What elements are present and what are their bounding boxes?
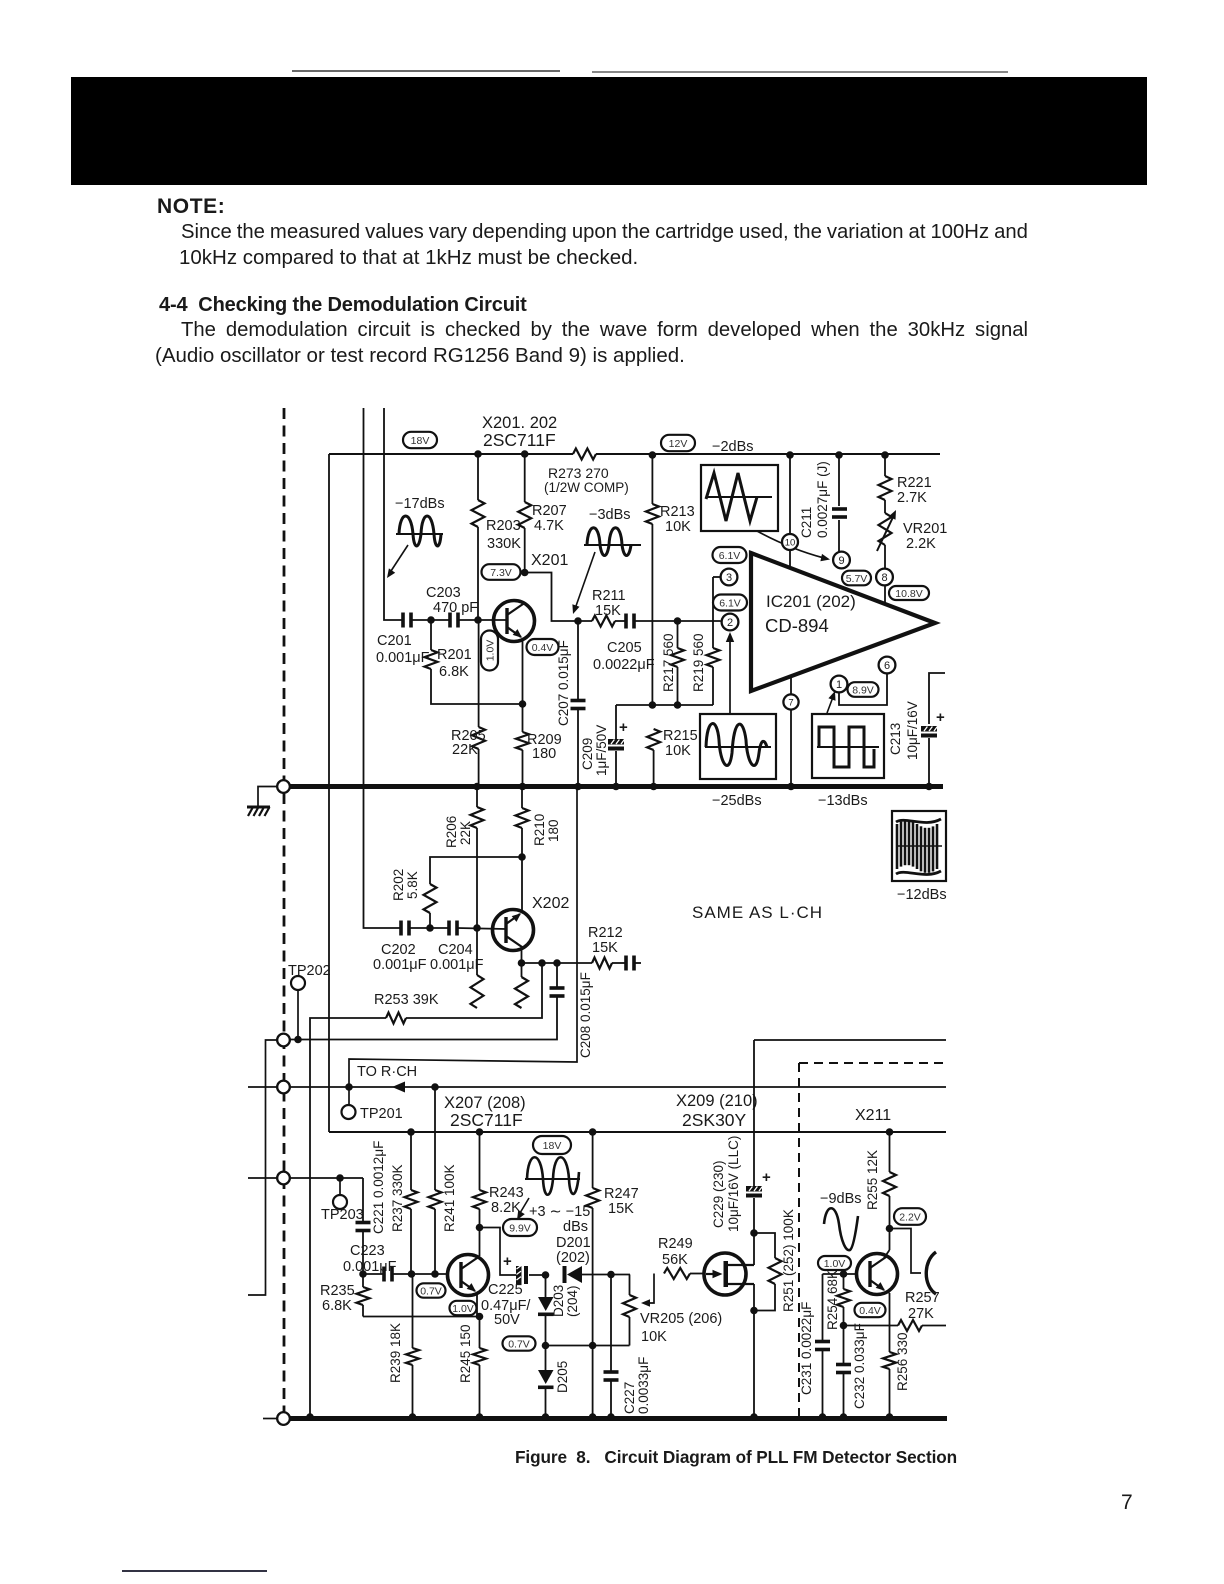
svg-text:C225: C225 xyxy=(488,1282,523,1298)
capacitor C203 470pF xyxy=(448,613,452,628)
pin 8 with R221/VR201 chain xyxy=(884,455,886,476)
svg-text:R273 270: R273 270 xyxy=(548,465,609,481)
oval 0.7V base X207 xyxy=(417,1283,446,1297)
svg-text:−3dBs: −3dBs xyxy=(589,507,631,523)
svg-text:X201: X201 xyxy=(531,552,568,569)
resistor R202 5.8K feedback xyxy=(430,857,522,884)
svg-text:R207: R207 xyxy=(532,503,567,519)
wire TP203 line xyxy=(248,1177,363,1179)
connector arc (to next stage) xyxy=(926,1252,936,1294)
note paragraph line 1 (justified) xyxy=(181,221,1028,244)
svg-text:0.001μF: 0.001μF xyxy=(376,650,430,666)
oval 18V rail label xyxy=(403,432,437,448)
capacitor C213 10uF/16V electrolytic xyxy=(929,673,945,724)
pin 7 line to ground bus xyxy=(790,677,792,784)
pin 8 xyxy=(876,569,893,586)
wire R-CH line right segment y=1040 xyxy=(754,1039,946,1041)
note paragraph line 2 xyxy=(179,246,638,270)
resistor R247 15K xyxy=(592,1132,594,1188)
transistor X211 xyxy=(857,1254,898,1295)
svg-text:22K: 22K xyxy=(458,821,473,845)
oval 2.2V xyxy=(894,1208,926,1225)
resistor R211 15K xyxy=(592,616,615,627)
capacitor C201 0.001uF xyxy=(401,613,405,628)
svg-text:56K: 56K xyxy=(662,1252,688,1268)
resistor R257 27K xyxy=(844,1325,899,1327)
svg-text:10K: 10K xyxy=(641,1329,667,1345)
svg-text:5.8K: 5.8K xyxy=(405,871,420,899)
svg-text:1: 1 xyxy=(836,679,842,691)
wire left 18V drop to lower section xyxy=(328,454,330,1132)
svg-text:0.0027μF (J): 0.0027μF (J) xyxy=(815,461,830,538)
svg-text:R201: R201 xyxy=(437,647,472,663)
svg-text:(204): (204) xyxy=(565,1285,580,1317)
VR201 arrow xyxy=(877,515,894,551)
capacitor C211 0.0027uF (J) xyxy=(838,455,840,506)
svg-text:D203: D203 xyxy=(551,1285,566,1317)
resistor R237 330K xyxy=(410,1132,412,1190)
diode D203 (204) xyxy=(545,1275,547,1297)
resistor R255 12K xyxy=(889,1132,891,1172)
arrow from -13dBs box to pin 1 xyxy=(827,697,833,713)
wire X209 source down to bus xyxy=(753,1284,755,1416)
resistor R239 18K xyxy=(412,1274,414,1348)
svg-text:6: 6 xyxy=(884,660,890,672)
svg-text:−13dBs: −13dBs xyxy=(818,793,868,809)
svg-text:3: 3 xyxy=(726,572,732,584)
arrow -17dBs to input wire xyxy=(391,545,408,571)
svg-text:180: 180 xyxy=(546,819,561,842)
wire TO R-CH line xyxy=(248,1086,946,1088)
svg-text:470 pF: 470 pF xyxy=(433,600,478,616)
svg-text:22K: 22K xyxy=(452,742,478,758)
svg-text:TP202: TP202 xyxy=(288,963,331,979)
svg-text:0.001μF: 0.001μF xyxy=(430,957,484,973)
svg-text:VR201: VR201 xyxy=(903,521,947,537)
resistor R201 6.8K xyxy=(430,620,432,650)
resistor R207 4.7K xyxy=(524,455,526,502)
svg-text:2.2V: 2.2V xyxy=(899,1211,921,1223)
svg-text:+: + xyxy=(936,709,945,726)
svg-text:−12dBs: −12dBs xyxy=(897,887,947,903)
arrow from -25dBs box to pin 2 xyxy=(729,640,731,714)
capacitor C221 0.0012uF xyxy=(362,1178,364,1222)
wire X201 base node xyxy=(411,619,450,621)
pin 7 xyxy=(783,694,798,709)
svg-text:C209: C209 xyxy=(580,738,595,770)
svg-text:R202: R202 xyxy=(391,869,406,901)
ground bus (bottom) xyxy=(290,1416,947,1421)
svg-text:12V: 12V xyxy=(669,438,688,450)
capacitor C225 0.47uF/50V electrolytic xyxy=(516,1266,528,1284)
svg-text:+: + xyxy=(762,1169,771,1186)
page number xyxy=(1121,1491,1133,1515)
svg-text:C202: C202 xyxy=(381,942,416,958)
svg-text:5.7V: 5.7V xyxy=(846,573,868,585)
wire collector dogleg to C225 xyxy=(480,1228,517,1276)
svg-text:−25dBs: −25dBs xyxy=(712,793,762,809)
wire VR205 bottom line xyxy=(546,1345,630,1347)
svg-text:6.1V: 6.1V xyxy=(719,597,741,609)
oval 6.1V pin2 xyxy=(713,595,747,611)
svg-text:0.001μF: 0.001μF xyxy=(343,1259,397,1275)
svg-text:TP203: TP203 xyxy=(321,1207,364,1223)
svg-text:R253 39K: R253 39K xyxy=(374,992,439,1008)
wire lower node line y=705 xyxy=(616,704,713,706)
svg-text:10μF/16V (LLC): 10μF/16V (LLC) xyxy=(726,1136,741,1232)
resistor R245 150 xyxy=(479,1317,481,1349)
svg-text:C231 0.0022μF: C231 0.0022μF xyxy=(799,1302,814,1395)
svg-text:D205: D205 xyxy=(555,1361,570,1393)
svg-text:R235: R235 xyxy=(320,1283,355,1299)
TP203 test point xyxy=(339,1178,341,1196)
svg-text:2SK30Y: 2SK30Y xyxy=(682,1110,747,1130)
oval 0.4V X211 xyxy=(855,1303,886,1317)
svg-text:IC201 (202): IC201 (202) xyxy=(766,592,856,611)
svg-text:C229 (230): C229 (230) xyxy=(711,1160,726,1228)
transistor X201 xyxy=(494,601,535,642)
resistor R215 10K xyxy=(647,729,660,750)
svg-text:1.0V: 1.0V xyxy=(484,640,496,662)
svg-text:15K: 15K xyxy=(608,1201,634,1217)
svg-text:9: 9 xyxy=(838,555,844,567)
resistor R212 15K xyxy=(592,958,612,969)
oval 1.0V base voltage (vertical) xyxy=(481,631,498,671)
svg-text:C232 0.033μF: C232 0.033μF xyxy=(852,1323,867,1409)
ground bus (mid) xyxy=(290,784,943,789)
svg-text:R237 330K: R237 330K xyxy=(390,1164,405,1232)
svg-text:6.8K: 6.8K xyxy=(439,664,469,680)
oval 0.4V emitter voltage xyxy=(527,639,559,655)
resistor R209 180 xyxy=(522,704,524,732)
capacitor C207 0.015uF xyxy=(577,621,579,701)
svg-text:dBs: dBs xyxy=(563,1219,588,1235)
TP201 test point xyxy=(348,1087,350,1105)
svg-text:TO R·CH: TO R·CH xyxy=(357,1064,417,1080)
wire to chassis ground xyxy=(258,787,277,807)
wire collector dogleg to connector xyxy=(890,1229,922,1274)
paragraph line 1 (justified) xyxy=(181,319,1028,342)
resistor R205 22K xyxy=(478,620,480,727)
svg-text:C203: C203 xyxy=(426,585,461,601)
svg-text:C204: C204 xyxy=(438,942,473,958)
svg-text:8.2K: 8.2K xyxy=(491,1200,521,1216)
wire pin10 line from rail xyxy=(789,455,791,566)
svg-text:6.8K: 6.8K xyxy=(322,1298,352,1314)
pin 1 and pin 6 bracket wire xyxy=(839,673,887,705)
svg-text:2SC711F: 2SC711F xyxy=(483,430,556,450)
svg-text:TP201: TP201 xyxy=(360,1106,403,1122)
capacitor C232 0.033uF xyxy=(843,1326,845,1365)
wire left bracket from 1040 circle xyxy=(248,1040,277,1295)
oval 8.9V xyxy=(848,682,879,697)
dots on ground bus xyxy=(473,783,481,791)
wire X202 emitter up to R210 xyxy=(521,857,523,912)
svg-text:0.001μF: 0.001μF xyxy=(373,957,427,973)
svg-text:10K: 10K xyxy=(665,519,691,535)
svg-text:C207 0.015μF: C207 0.015μF xyxy=(556,640,571,726)
capacitor C227 0.0033uF xyxy=(610,1275,612,1372)
NOTE heading xyxy=(157,195,225,219)
svg-text:27K: 27K xyxy=(908,1306,934,1322)
svg-text:R213: R213 xyxy=(660,504,695,520)
wire X211 base xyxy=(823,1273,857,1275)
black header bar xyxy=(71,77,1147,185)
pin 10 xyxy=(782,534,798,550)
waveform box -12dBs (striped) xyxy=(892,811,946,881)
svg-text:10μF/16V: 10μF/16V xyxy=(905,701,920,760)
svg-text:0.4V: 0.4V xyxy=(532,642,554,654)
svg-text:1.0V: 1.0V xyxy=(452,1303,474,1315)
wire X201 collector to R211 node xyxy=(525,573,592,622)
oval 7.3V collector voltage xyxy=(482,564,521,580)
svg-text:R249: R249 xyxy=(658,1236,693,1252)
svg-text:C201: C201 xyxy=(377,633,412,649)
potentiometer VR205 (206) 10K xyxy=(629,1275,631,1296)
svg-text:2.7K: 2.7K xyxy=(897,490,927,506)
svg-text:0.4V: 0.4V xyxy=(859,1305,881,1317)
oval 5.7V xyxy=(842,571,871,586)
svg-text:(202): (202) xyxy=(556,1250,590,1266)
pin 1 xyxy=(831,676,848,693)
svg-text:2: 2 xyxy=(727,617,733,629)
svg-text:−17dBs: −17dBs xyxy=(395,496,445,512)
svg-text:R241 100K: R241 100K xyxy=(442,1164,457,1232)
diode D201 (202) xyxy=(563,1266,567,1283)
svg-text:8.9V: 8.9V xyxy=(852,684,874,696)
svg-text:R221: R221 xyxy=(897,475,932,491)
connector circle at bus start xyxy=(277,780,290,793)
wire input line to X202 base (C202 feed) xyxy=(364,408,401,928)
svg-text:8: 8 xyxy=(881,572,887,584)
capacitor after R212 xyxy=(624,956,628,971)
svg-text:R239 18K: R239 18K xyxy=(388,1323,403,1383)
svg-text:R206: R206 xyxy=(444,816,459,848)
svg-text:7.3V: 7.3V xyxy=(490,567,512,579)
svg-text:18V: 18V xyxy=(543,1140,562,1152)
svg-text:VR205 (206): VR205 (206) xyxy=(640,1311,722,1327)
svg-text:R217 560: R217 560 xyxy=(661,633,676,692)
svg-text:C213: C213 xyxy=(888,723,903,755)
capacitor C202 0.001uF xyxy=(399,921,403,936)
figure caption xyxy=(515,1447,957,1468)
svg-text:−9dBs: −9dBs xyxy=(820,1191,862,1207)
svg-text:330K: 330K xyxy=(487,536,521,552)
svg-text:R257: R257 xyxy=(905,1290,940,1306)
resistor R254 68K xyxy=(843,1274,845,1289)
svg-text:R212: R212 xyxy=(588,925,623,941)
resistor R219 560 xyxy=(712,577,714,648)
svg-text:R247: R247 xyxy=(604,1186,639,1202)
connector circle on dashed line y=1040 xyxy=(277,1034,290,1047)
svg-text:15K: 15K xyxy=(595,603,621,619)
svg-text:0.0022μF: 0.0022μF xyxy=(593,657,655,673)
dashed separation line (left) xyxy=(283,408,286,1418)
oval 6.1V pin3 xyxy=(713,547,747,563)
capacitor C205 0.0022uF xyxy=(615,620,626,622)
svg-text:CD-894: CD-894 xyxy=(765,615,829,636)
resistor R253 39K xyxy=(406,963,542,1018)
svg-text:0.0033μF: 0.0033μF xyxy=(636,1357,651,1414)
bottom-left rule xyxy=(122,1570,267,1572)
svg-text:1.0V: 1.0V xyxy=(824,1258,846,1270)
capacitor C209 1uF/50V electrolytic xyxy=(615,705,617,739)
svg-text:C223: C223 xyxy=(350,1243,385,1259)
oval 0.7V diode node xyxy=(503,1336,536,1350)
scan artifact line above header bar xyxy=(292,70,560,72)
connector circles on dashed line xyxy=(277,780,290,793)
oval 10.8V xyxy=(889,586,929,600)
node dots on 18V rail xyxy=(474,450,482,458)
transistor X202 (emitter up) xyxy=(493,910,534,951)
svg-text:R245 150: R245 150 xyxy=(458,1324,473,1383)
svg-text:0.7V: 0.7V xyxy=(508,1338,530,1350)
svg-text:SAME AS L·CH: SAME AS L·CH xyxy=(692,903,823,922)
oval 1.0V emitter X207 xyxy=(450,1301,477,1315)
svg-text:18V: 18V xyxy=(411,435,430,447)
svg-text:R256 330: R256 330 xyxy=(895,1332,910,1391)
svg-text:R243: R243 xyxy=(489,1185,524,1201)
resistor R243 8.2K xyxy=(479,1132,481,1190)
svg-text:(1/2W COMP): (1/2W COMP) xyxy=(544,480,629,495)
svg-text:50V: 50V xyxy=(494,1312,520,1328)
svg-text:9.9V: 9.9V xyxy=(509,1222,531,1234)
op-amp IC201 (202) CD-894 triangle xyxy=(751,553,935,691)
pin 3 xyxy=(721,569,738,586)
pin 2 xyxy=(722,614,739,631)
svg-text:10K: 10K xyxy=(665,743,691,759)
dashed R-CH box left xyxy=(798,1063,800,1416)
dangling resistor below X202 base xyxy=(476,928,478,975)
svg-text:X209 (210): X209 (210) xyxy=(676,1092,758,1110)
svg-text:R251 (252) 100K: R251 (252) 100K xyxy=(781,1209,796,1312)
capacitor C231 0.0022uF xyxy=(822,1274,824,1341)
svg-text:10.8V: 10.8V xyxy=(895,588,922,600)
transistor X207 xyxy=(448,1255,489,1296)
svg-text:C211: C211 xyxy=(799,507,814,538)
resistor R217 560 xyxy=(677,621,679,648)
wire TP201 node to ground bus via x=577 xyxy=(349,787,577,1088)
capacitor C229 (230) 10uF/16V (LLC) electrolytic xyxy=(746,1186,762,1198)
wire X207 emitter node xyxy=(476,1294,478,1317)
wire C229 drain line from R-CH line xyxy=(753,1040,755,1186)
paragraph line 2 xyxy=(155,344,685,368)
svg-text:R255 12K: R255 12K xyxy=(865,1150,880,1210)
dashed R-CH box top xyxy=(799,1062,946,1064)
curved arrow from box to pin 9 xyxy=(757,531,824,558)
pin 9 xyxy=(833,552,850,569)
svg-text:7: 7 xyxy=(788,697,793,708)
FET X209 2SK30Y xyxy=(704,1253,754,1295)
connector circle on TO R-CH line xyxy=(277,1081,290,1094)
svg-text:R203: R203 xyxy=(486,518,521,534)
resistor R210 180 xyxy=(521,786,523,808)
wire X201 emitter xyxy=(522,640,524,704)
TP202 test point xyxy=(291,976,305,990)
capacitor C208 0.015uF xyxy=(556,963,558,988)
waveform +3~-15dBs sine xyxy=(525,1178,580,1180)
svg-text:D201: D201 xyxy=(556,1235,591,1251)
svg-text:X211: X211 xyxy=(855,1107,891,1124)
dots on bottom bus xyxy=(306,1413,314,1421)
svg-text:0.7V: 0.7V xyxy=(420,1285,442,1297)
svg-text:C208 0.015μF: C208 0.015μF xyxy=(578,972,593,1058)
svg-text:6.1V: 6.1V xyxy=(719,550,741,562)
resistor R251 (252) 100K xyxy=(754,1233,775,1258)
resistor R273 270 (in rail) xyxy=(573,449,596,460)
dangling resistor below X202 collector xyxy=(521,963,523,977)
pin 6 xyxy=(879,657,896,674)
resistor R235 6.8K xyxy=(359,1270,367,1278)
svg-text:+: + xyxy=(503,1253,512,1270)
svg-text:C205: C205 xyxy=(607,640,642,656)
diode D205 xyxy=(545,1346,547,1371)
svg-text:180: 180 xyxy=(532,746,556,762)
resistor R206 22K xyxy=(476,786,478,807)
svg-text:R219 560: R219 560 xyxy=(691,633,706,692)
connector circle TP203 line xyxy=(277,1172,290,1185)
svg-text:+3 ∼ −15: +3 ∼ −15 xyxy=(529,1204,590,1220)
wire X211 collector xyxy=(884,1250,890,1258)
wire X202 collector node xyxy=(521,948,523,963)
svg-text:15K: 15K xyxy=(592,940,618,956)
waveform box square -13dBs xyxy=(812,714,884,778)
arrow waveform to 9.9V xyxy=(520,1198,529,1213)
svg-text:1μF/50V: 1μF/50V xyxy=(594,725,609,776)
resistor R241 100K xyxy=(434,1087,436,1190)
wire 18V bottom rail xyxy=(329,1131,946,1133)
svg-text:10: 10 xyxy=(785,537,796,548)
oval 9.9V xyxy=(503,1219,537,1236)
svg-text:2SC711F: 2SC711F xyxy=(450,1110,523,1130)
wire pin3 stub xyxy=(713,576,721,578)
connector circle bottom bus xyxy=(277,1412,290,1425)
svg-text:C221 0.0012μF: C221 0.0012μF xyxy=(371,1141,386,1234)
capacitor C223 0.001uF xyxy=(363,1273,383,1275)
wire X211 emitter / resistor R256 330 xyxy=(886,1291,890,1293)
resistor R213 10K xyxy=(651,455,653,504)
svg-text:−2dBs: −2dBs xyxy=(712,439,754,455)
resistor R203 330K xyxy=(477,455,479,500)
svg-text:R215: R215 xyxy=(663,728,698,744)
svg-text:C227: C227 xyxy=(622,1382,637,1414)
wire X202 base xyxy=(457,928,506,929)
svg-text:+: + xyxy=(619,719,628,736)
wire 18V top supply rail xyxy=(329,453,573,455)
chassis ground symbol xyxy=(247,807,270,816)
svg-text:R210: R210 xyxy=(532,814,547,846)
waveform box triangle wave -2dBs xyxy=(701,465,778,531)
svg-text:4.7K: 4.7K xyxy=(534,518,564,534)
svg-text:R211: R211 xyxy=(592,588,626,604)
arrow -3dBs to node xyxy=(576,552,595,606)
waveform box sine -25dBs xyxy=(700,714,776,779)
svg-text:R254 68K: R254 68K xyxy=(825,1270,840,1330)
capacitor C204 0.001uF xyxy=(447,921,451,936)
svg-text:2.2K: 2.2K xyxy=(906,536,936,552)
section heading 4-4 xyxy=(159,294,527,317)
label 18V oval bottom xyxy=(533,1136,571,1154)
svg-text:X202: X202 xyxy=(532,895,569,912)
oval 12V rail label xyxy=(661,435,695,451)
oval 1.0V X211 base xyxy=(818,1256,851,1270)
wire input line to X201 base (C201 feed) xyxy=(384,408,403,620)
resistor R249 56K xyxy=(664,1268,690,1279)
